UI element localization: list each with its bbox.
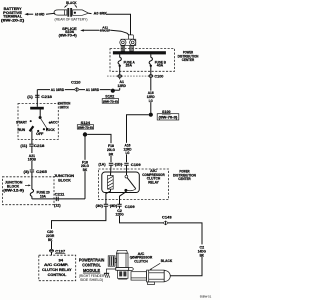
svg-text:(3): (3): [24, 170, 29, 174]
C109 connector plane dashes top: [114, 163, 125, 165]
wire A1 16RD to ignition switch: [37, 89, 110, 91]
connector plane dashed line C100: [107, 75, 149, 77]
svg-text:C143: C143: [162, 214, 173, 219]
svg-text:S100: S100: [162, 109, 171, 114]
connector C110: [71, 79, 81, 92]
svg-text:C100: C100: [154, 73, 164, 78]
wire A0 right of splice: [89, 12, 92, 14]
relay contacts: [120, 165, 136, 204]
wire into splice S102: [113, 89, 120, 91]
svg-text:20A: 20A: [126, 64, 133, 68]
wire label A11 6RK/SP: [100, 28, 111, 31]
svg-text:(11): (11): [20, 144, 27, 148]
wire A21 16DB: [31, 146, 33, 169]
relay bottom pin row C109: [96, 204, 136, 209]
ignition switch mechanism: [16, 107, 58, 136]
svg-text:10A: 10A: [40, 194, 47, 198]
svg-text:A/C COMP.: A/C COMP.: [44, 263, 69, 267]
svg-text:CENTER: CENTER: [178, 177, 191, 181]
wire A1 12RD: [119, 77, 121, 90]
relay outline: [102, 172, 140, 193]
fuse A: [118, 54, 121, 74]
svg-text:(8W-20-2): (8W-20-2): [1, 18, 25, 23]
power distribution center label (relay): [173, 170, 196, 181]
svg-text:BK: BK: [200, 253, 205, 257]
svg-text:A0 6RD: A0 6RD: [35, 12, 45, 16]
A/C compressor clutch label: [130, 252, 153, 264]
arrow to battery terminal: [24, 13, 28, 16]
power distribution center label (top): [178, 51, 199, 62]
svg-text:LG: LG: [126, 151, 130, 155]
splice S100: [149, 113, 153, 117]
eyelet ring right: [130, 39, 136, 45]
connector C211 pin 12: [54, 191, 65, 207]
svg-text:(12): (12): [54, 203, 61, 207]
svg-text:C137: C137: [55, 249, 66, 254]
wire label C2 14DG BK: [198, 244, 207, 256]
stud left: [121, 46, 125, 52]
svg-text:(1): (1): [27, 95, 32, 99]
wire to C211: [32, 198, 85, 200]
wire: [46, 13, 55, 14]
svg-text:(8W-12-9): (8W-12-9): [3, 188, 24, 192]
svg-text:12RD: 12RD: [118, 84, 127, 88]
svg-text:A1 16RD: A1 16RD: [86, 88, 100, 92]
wire into junction block: [31, 172, 33, 189]
ignition switch box: [18, 104, 58, 140]
svg-text:CONTROL: CONTROL: [48, 273, 67, 277]
connector under fuse A: [117, 75, 122, 78]
wire A11 to eyelet crimp: [111, 30, 129, 35]
svg-text:C211: C211: [55, 191, 66, 196]
svg-text:(8W-70-3): (8W-70-3): [159, 116, 178, 120]
eyelet strap: [121, 39, 136, 45]
svg-text:C109: C109: [131, 162, 142, 167]
connector C143: [162, 214, 173, 225]
PDC bus bar: [113, 51, 166, 54]
wire A16 12RD/LG: [150, 77, 152, 112]
svg-text:S102: S102: [105, 94, 115, 99]
battery positive terminal label: [1, 6, 25, 22]
junction block box: [2, 177, 54, 205]
svg-text:S124: S124: [81, 120, 91, 125]
connector C137: [49, 249, 66, 254]
svg-text:(30): (30): [96, 204, 103, 208]
svg-text:A0 6RK: A0 6RK: [94, 12, 108, 16]
C109 connector plane dashes bottom: [108, 204, 117, 206]
svg-text:40A: 40A: [157, 64, 164, 68]
connector C265 pin 3: [24, 169, 48, 174]
svg-text:START: START: [16, 120, 27, 124]
eyelet ring left: [120, 39, 126, 45]
svg-text:OFF: OFF: [36, 132, 43, 136]
wire C2 from relay to compressor: [120, 206, 203, 276]
BLACK connector label: [149, 259, 172, 270]
svg-text:(8W-70-6): (8W-70-6): [103, 99, 118, 103]
wire from RUN contact down: [31, 130, 33, 143]
svg-text:C218: C218: [41, 94, 52, 99]
svg-text:6RK/SP: 6RK/SP: [100, 29, 111, 33]
svg-text:95BW-51: 95BW-51: [200, 294, 212, 298]
svg-text:(REAR OF BATTERY): (REAR OF BATTERY): [55, 17, 88, 21]
svg-text:BK: BK: [48, 238, 53, 242]
wire to PDC stud: [106, 14, 131, 35]
svg-text:BLACK: BLACK: [161, 259, 173, 263]
svg-text:LG: LG: [149, 99, 153, 103]
powertrain control module label: [79, 257, 105, 282]
svg-text:POWERTRAIN: POWERTRAIN: [79, 257, 104, 262]
svg-text:C218: C218: [34, 143, 45, 148]
fuse 20: [30, 189, 33, 199]
eyelet terminal crimp: [128, 35, 133, 39]
svg-text:12DG: 12DG: [116, 213, 125, 217]
svg-text:BLOCK: BLOCK: [58, 178, 71, 182]
PCM pin 34 box: [39, 255, 76, 281]
svg-text:C265: C265: [36, 169, 47, 174]
svg-text:RELAY: RELAY: [148, 180, 159, 184]
wire S100 to relay contact: [127, 115, 149, 163]
stud right: [130, 46, 134, 52]
connector C100: [148, 73, 164, 78]
compressor clutch drawing: [108, 250, 133, 279]
in-line connector drawing: [131, 270, 170, 285]
splice S106 physical drawing: [54, 1, 89, 22]
svg-text:RUN: RUN: [18, 128, 26, 132]
wire A0: [28, 13, 33, 15]
relay label: [142, 169, 165, 184]
svg-text:(1A): (1A): [98, 163, 105, 167]
connector C218 pin 1: [27, 94, 52, 99]
ground symbol: [104, 273, 110, 277]
svg-text:ACC: ACC: [51, 120, 59, 124]
svg-text:(8W-70-4): (8W-70-4): [59, 33, 78, 37]
svg-text:MODULE: MODULE: [83, 268, 100, 273]
svg-text:SWITCH: SWITCH: [60, 105, 69, 109]
svg-text:A1 16RD: A1 16RD: [51, 88, 65, 92]
svg-text:C109: C109: [125, 204, 136, 209]
junction block inner label: [3, 180, 31, 192]
arrow to splice label: [80, 29, 84, 31]
svg-text:CLUTCH: CLUTCH: [134, 259, 148, 263]
wire down to ignition switch: [36, 90, 38, 107]
fuse B: [149, 54, 152, 74]
connector C218 pin 11: [20, 143, 45, 148]
wire label A1 16RD: [85, 87, 100, 92]
A/C compressor clutch relay box: [98, 169, 168, 200]
svg-text:CENTER: CENTER: [182, 58, 195, 62]
power distribution center box (top): [110, 49, 175, 72]
svg-text:16DB: 16DB: [28, 158, 37, 162]
svg-text:CLUTCH RELAY: CLUTCH RELAY: [42, 268, 72, 272]
svg-text:BK: BK: [83, 168, 88, 172]
wire S124 to relay coil: [87, 134, 111, 162]
ground wire: [106, 269, 116, 273]
splice S102: [111, 89, 115, 93]
svg-text:C110: C110: [71, 79, 81, 84]
svg-text:LOCK: LOCK: [46, 128, 55, 132]
relay coil: [106, 165, 113, 204]
wire F18 up to splice S124: [84, 136, 86, 199]
svg-text:SIDE SHIELD): SIDE SHIELD): [80, 278, 103, 282]
svg-text:34: 34: [59, 258, 64, 262]
svg-text:(8W-70-8): (8W-70-8): [78, 125, 93, 129]
relay top pin row C109: [98, 162, 141, 167]
svg-text:(3D): (3D): [110, 204, 117, 208]
svg-text:(1B): (1B): [115, 163, 122, 167]
wire C20 to PCM: [52, 206, 106, 249]
svg-text:BR: BR: [109, 152, 114, 156]
splice S106 label: [59, 27, 78, 38]
splice S124: [83, 132, 87, 136]
